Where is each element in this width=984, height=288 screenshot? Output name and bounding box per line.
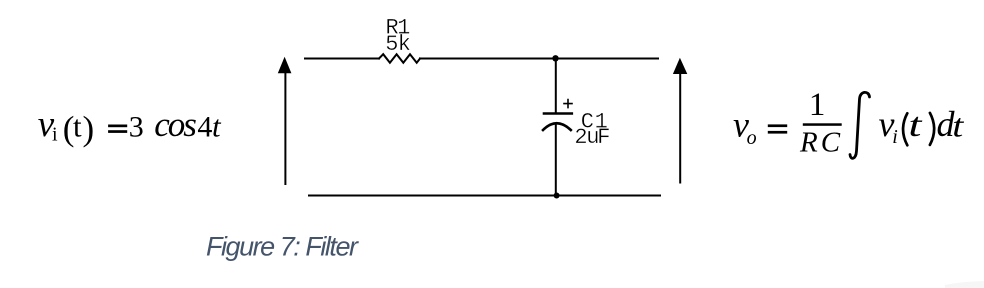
svg-text:Figure 7: Filter: Figure 7: Filter (206, 232, 359, 262)
